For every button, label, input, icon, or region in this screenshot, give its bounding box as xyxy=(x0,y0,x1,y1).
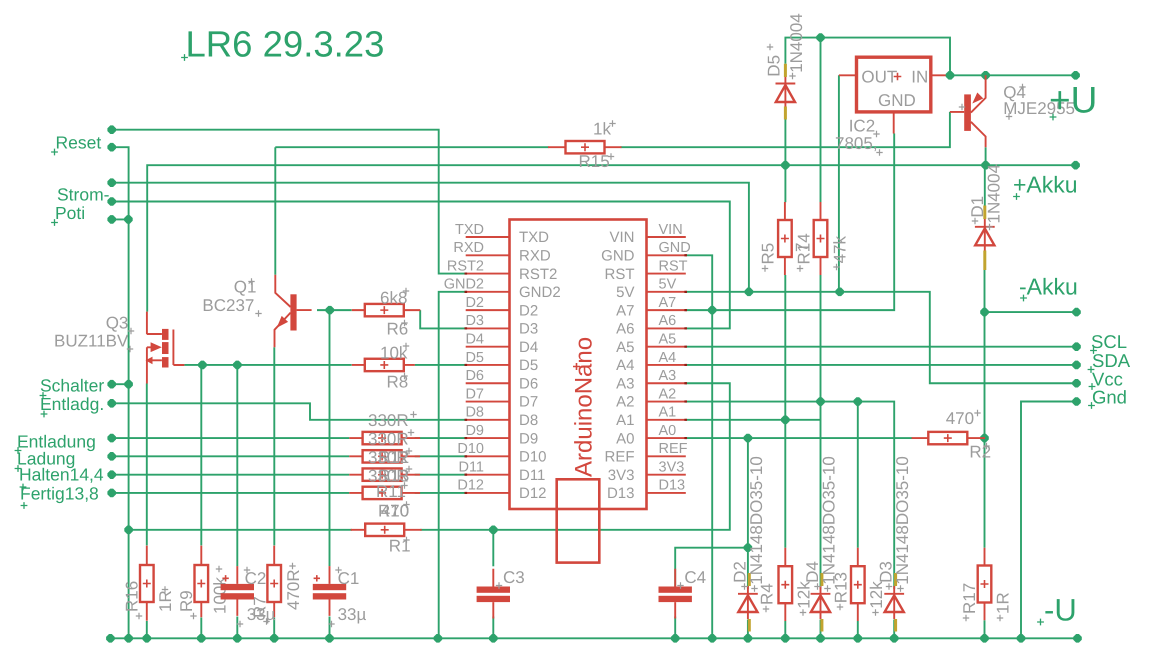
svg-text:C2: C2 xyxy=(245,569,267,588)
wire D5 top loop xyxy=(785,38,950,76)
IC2 GND pin xyxy=(893,112,895,134)
svg-text:A0: A0 xyxy=(659,423,677,439)
resistor R9 100k body xyxy=(195,565,209,602)
resistor R10 330R body xyxy=(363,487,402,499)
resistor R5 xyxy=(784,202,786,275)
svg-text:D3: D3 xyxy=(465,313,484,329)
svg-text:47k: 47k xyxy=(831,235,850,263)
wire Q1 collector column xyxy=(274,147,276,275)
ArduinoNano USB notch xyxy=(557,479,600,562)
C1 polarity mark xyxy=(314,575,320,581)
capacitor C1 33u xyxy=(313,584,346,590)
wire Q3 source to R16 xyxy=(146,384,148,546)
svg-text:-Akku: -Akku xyxy=(1019,274,1078,300)
svg-text:D2: D2 xyxy=(519,302,538,319)
svg-text:A1: A1 xyxy=(616,412,634,429)
transistor Q3 BUZ11BV body xyxy=(147,312,185,384)
svg-text:GND: GND xyxy=(601,247,635,264)
gray origin crosses xyxy=(127,44,1026,627)
resistor R7 470R xyxy=(273,546,275,618)
svg-text:R17: R17 xyxy=(960,583,979,614)
svg-text:OUT: OUT xyxy=(861,68,897,87)
resistor R4 12k xyxy=(784,548,786,621)
svg-text:12k: 12k xyxy=(867,581,886,609)
svg-text:A2: A2 xyxy=(616,394,634,411)
svg-text:D5: D5 xyxy=(519,357,538,374)
diode D3 1N4148 xyxy=(885,595,904,612)
svg-text:R4: R4 xyxy=(758,583,777,605)
wire Q1 emitter to R7 xyxy=(273,347,275,545)
svg-text:GND: GND xyxy=(878,91,916,110)
wire C1 column from Q1 base xyxy=(329,310,331,566)
svg-text:330R: 330R xyxy=(368,430,409,449)
svg-text:1N4004: 1N4004 xyxy=(985,164,1004,224)
wire D1 bottom to -Akku row xyxy=(985,270,1077,312)
svg-text:D9: D9 xyxy=(519,430,538,447)
svg-text:C3: C3 xyxy=(503,568,525,587)
wire R9 column from gate line xyxy=(200,365,202,545)
svg-text:Q1: Q1 xyxy=(234,278,257,297)
diode D4 1N4148 xyxy=(811,595,830,612)
resistor R14 47k xyxy=(820,202,822,275)
svg-text:1N4148DO35-10: 1N4148DO35-10 xyxy=(893,456,912,585)
svg-text:D5: D5 xyxy=(765,55,784,77)
resistor R13 12k body xyxy=(851,566,865,603)
C2 polarity mark xyxy=(222,575,228,581)
resistor R14 47k body xyxy=(814,220,828,257)
resistor R15 1k xyxy=(548,146,622,148)
svg-text:BUZ11BV: BUZ11BV xyxy=(54,332,129,351)
svg-text:D12: D12 xyxy=(457,478,484,494)
svg-text:5V: 5V xyxy=(616,284,634,301)
svg-text:Halten14,4: Halten14,4 xyxy=(19,464,104,484)
svg-text:D6: D6 xyxy=(465,368,484,384)
svg-text:R9: R9 xyxy=(177,590,196,612)
wire R15 left to Q1 collector xyxy=(275,146,548,148)
resistor R11 330R xyxy=(349,474,420,476)
wire bottom ground rail xyxy=(110,637,1077,639)
svg-text:D3: D3 xyxy=(519,321,538,338)
svg-text:R1: R1 xyxy=(389,537,411,556)
svg-text:5V: 5V xyxy=(659,277,677,293)
wire R1 row (Schalter column to A3) xyxy=(129,383,730,530)
svg-text:IC2: IC2 xyxy=(849,117,875,136)
resistor R1 470 xyxy=(351,529,422,531)
svg-text:1R: 1R xyxy=(994,592,1013,614)
wire A5 row to SCL xyxy=(686,346,1077,348)
resistor R16 1R body xyxy=(140,565,154,602)
wire A2 row to D3 diode xyxy=(686,402,894,589)
svg-text:R16: R16 xyxy=(123,581,142,612)
resistor R9 100k xyxy=(200,546,202,618)
svg-text:33µ: 33µ xyxy=(247,605,276,624)
svg-text:470R: 470R xyxy=(284,569,303,610)
svg-text:D7: D7 xyxy=(519,394,538,411)
resistor R13 12k xyxy=(857,548,859,621)
resistor R8 10k body xyxy=(365,359,404,371)
svg-text:7805,: 7805, xyxy=(835,134,878,153)
resistor R7 470R body xyxy=(267,565,281,602)
wire R15 right to Q4 base xyxy=(621,112,950,147)
wire Q4 collector to +Akku dot xyxy=(985,147,987,165)
svg-text:A7: A7 xyxy=(616,302,634,319)
svg-text:D2: D2 xyxy=(465,295,484,311)
svg-text:C4: C4 xyxy=(684,568,706,587)
svg-text:Schalter: Schalter xyxy=(40,376,104,396)
svg-text:330R: 330R xyxy=(368,411,409,430)
svg-text:C1: C1 xyxy=(338,569,360,588)
IC2 IN pin stub xyxy=(931,74,947,76)
wire +Akku horizontal net xyxy=(147,165,1075,311)
resistor R10 330R xyxy=(349,492,420,494)
transistor Q1 BC237 xyxy=(290,294,296,330)
resistor R2 470 xyxy=(912,437,985,439)
op-amp IC2 7805 box xyxy=(857,57,931,112)
svg-text:1k: 1k xyxy=(593,120,611,139)
svg-text:1N4148DO35-10: 1N4148DO35-10 xyxy=(820,456,839,585)
junction dots left labels xyxy=(107,125,132,497)
svg-text:BC237: BC237 xyxy=(202,296,254,315)
transistor Q4 MJE2955 xyxy=(964,94,971,130)
svg-text:D5: D5 xyxy=(465,350,484,366)
capacitor C2 33u xyxy=(221,584,254,590)
svg-text:RST2: RST2 xyxy=(519,266,557,283)
resistor R13 330R xyxy=(349,455,420,457)
svg-text:R11: R11 xyxy=(376,482,406,501)
svg-text:RXD: RXD xyxy=(519,247,551,264)
svg-text:A3: A3 xyxy=(616,375,634,392)
svg-text:R15: R15 xyxy=(579,152,610,171)
resistor R16 1R xyxy=(146,546,148,621)
svg-text:RST: RST xyxy=(659,258,688,274)
wire D5 bottom / R5 column xyxy=(784,119,786,202)
svg-text:D10: D10 xyxy=(457,441,484,457)
diode D2 1N4148 xyxy=(738,595,757,612)
wire A0 row to R2 xyxy=(686,437,913,439)
wire D2 column from A0 xyxy=(747,438,749,589)
svg-text:Fertig13,8: Fertig13,8 xyxy=(20,483,99,503)
svg-text:D4: D4 xyxy=(465,331,484,347)
svg-text:33µ: 33µ xyxy=(338,605,367,624)
wire R8 to D5 xyxy=(415,364,466,366)
junction dots middle xyxy=(124,288,1081,552)
svg-text:REF: REF xyxy=(659,441,688,457)
resistor R8 10k xyxy=(352,364,415,366)
wire C2 column from gate line xyxy=(236,365,238,566)
wire C3 column xyxy=(492,530,494,567)
diode D1 1N4004 xyxy=(975,228,994,245)
svg-text:VIN: VIN xyxy=(609,229,634,246)
wire Fertig13,8 to R10 xyxy=(112,492,466,494)
svg-text:LR6 29.3.23: LR6 29.3.23 xyxy=(186,24,385,65)
resistor R12 330R body xyxy=(363,432,402,444)
svg-text:470: 470 xyxy=(946,409,974,428)
junction dots top area xyxy=(781,33,1080,169)
wire Gnd label column xyxy=(1021,402,1077,639)
svg-text:REF: REF xyxy=(605,449,635,466)
svg-text:A2: A2 xyxy=(659,386,677,402)
svg-text:D13: D13 xyxy=(607,485,635,502)
wire Poti net (to A6) xyxy=(112,202,730,329)
svg-text:A4: A4 xyxy=(659,350,677,366)
svg-text:D7: D7 xyxy=(465,386,484,402)
wire Ladung to R13 xyxy=(112,455,466,457)
resistor R6 6k8 body xyxy=(365,304,404,316)
svg-text:A0: A0 xyxy=(616,430,634,447)
svg-text:A7: A7 xyxy=(659,295,677,311)
wire R6 to D3 xyxy=(420,310,466,328)
svg-text:3V3: 3V3 xyxy=(608,467,635,484)
wire Halten14,4 to R11 xyxy=(112,474,466,476)
IC2 OUT pin xyxy=(839,74,857,76)
svg-text:D4: D4 xyxy=(519,339,538,356)
capacitor C3 xyxy=(477,587,510,593)
svg-text:3V3: 3V3 xyxy=(659,459,685,475)
svg-text:D8: D8 xyxy=(519,412,538,429)
svg-text:R12: R12 xyxy=(378,448,409,467)
wire Q1 base to R6 left xyxy=(317,309,352,311)
svg-text:A5: A5 xyxy=(616,339,634,356)
resistor R6 6k8 xyxy=(352,309,421,311)
wire Entladg. net (to D8) xyxy=(112,403,466,420)
diode D5 1N4004 xyxy=(776,85,795,102)
wire R13 column from A2 xyxy=(857,402,859,548)
wire R14 bottom to D4 top xyxy=(820,275,822,589)
svg-text:Entladg.: Entladg. xyxy=(40,394,104,414)
svg-text:Gnd: Gnd xyxy=(1092,387,1127,408)
svg-text:D11: D11 xyxy=(458,459,484,475)
svg-text:D10: D10 xyxy=(519,449,547,466)
svg-text:D13: D13 xyxy=(659,478,686,494)
svg-text:Poti: Poti xyxy=(55,203,85,223)
svg-text:TXD: TXD xyxy=(455,222,484,238)
resistor R17 1R body xyxy=(978,566,992,603)
op-amp U1 ArduinoNano box xyxy=(510,220,647,510)
svg-text:GND: GND xyxy=(659,240,691,256)
svg-text:1N4148DO35-10: 1N4148DO35-10 xyxy=(747,456,766,585)
wire IC2 OUT column to 5V xyxy=(838,75,840,292)
wire A7 row to IC2 GND xyxy=(686,134,894,311)
svg-text:1N4004: 1N4004 xyxy=(787,13,806,73)
wire R5 bottom to R4 top xyxy=(784,275,786,548)
resistor R12 330R xyxy=(349,437,420,439)
wire C4 top to D2 column xyxy=(675,548,748,587)
wire Strom net (to 5V) xyxy=(112,183,749,292)
wire GND pin to rail column xyxy=(686,255,712,638)
svg-text:RST2: RST2 xyxy=(447,258,484,274)
IC2 OUT plus xyxy=(894,73,902,81)
svg-text:7: 7 xyxy=(793,243,812,252)
wire +U row xyxy=(947,74,1076,76)
resistor R4 12k body xyxy=(779,566,793,603)
svg-text:IN: IN xyxy=(911,68,928,87)
svg-text:D8: D8 xyxy=(465,405,484,421)
svg-text:Reset: Reset xyxy=(56,133,102,153)
svg-text:D11: D11 xyxy=(519,467,545,484)
wire Reset net (to RST2) xyxy=(112,130,466,274)
svg-text:Strom-: Strom- xyxy=(57,185,110,205)
resistor R11 330R body xyxy=(363,468,402,480)
svg-text:D12: D12 xyxy=(519,485,547,502)
svg-text:A6: A6 xyxy=(616,321,634,338)
svg-text:GND2: GND2 xyxy=(519,284,561,301)
wire Schalter/Poti left column net xyxy=(112,147,129,638)
wire GND2 to ground rail xyxy=(439,292,466,638)
wire A4 row to SDA xyxy=(686,364,1077,366)
resistor R5 body xyxy=(778,220,792,257)
svg-text:R5: R5 xyxy=(759,243,778,265)
svg-text:A6: A6 xyxy=(659,313,677,329)
svg-text:1R: 1R xyxy=(156,590,175,612)
resistor R17 1R xyxy=(984,548,986,621)
wire 5V row to Vcc xyxy=(686,292,1077,383)
svg-text:A5: A5 xyxy=(659,331,677,347)
svg-text:+U: +U xyxy=(1049,80,1097,121)
resistor R2 470 body xyxy=(928,432,967,444)
wire Entladung to R12 xyxy=(112,437,466,439)
svg-text:ArduinoNano: ArduinoNano xyxy=(571,337,598,477)
pin connection markers xyxy=(465,255,688,493)
svg-text:R2: R2 xyxy=(969,442,991,461)
junction dots ground rail xyxy=(106,634,1082,643)
svg-text:A3: A3 xyxy=(659,368,677,384)
svg-text:D9: D9 xyxy=(465,423,484,439)
svg-text:RXD: RXD xyxy=(453,240,484,256)
capacitor C4 xyxy=(659,587,692,593)
resistor R1 470 body xyxy=(365,524,404,536)
svg-text:VIN: VIN xyxy=(659,222,683,238)
svg-text:RST: RST xyxy=(605,266,635,283)
ArduinoNano origin cross xyxy=(573,363,580,370)
wire ground rail risers xyxy=(147,617,985,639)
svg-text:+Akku: +Akku xyxy=(1013,172,1078,198)
wire +Akku dot to D1 top xyxy=(984,165,986,206)
svg-text:TXD: TXD xyxy=(519,229,549,246)
wire R14/D4 column xyxy=(820,38,822,203)
svg-text:-U: -U xyxy=(1044,593,1077,628)
svg-text:GND2: GND2 xyxy=(444,277,484,293)
svg-text:A1: A1 xyxy=(659,405,677,421)
wire A1 row xyxy=(686,419,821,421)
resistor R15 1k body xyxy=(566,141,605,153)
ArduinoNano pin stubs xyxy=(466,237,686,493)
svg-text:A4: A4 xyxy=(616,357,634,374)
wire Q3 gate to R8 left xyxy=(184,364,351,366)
svg-text:Q3: Q3 xyxy=(106,313,129,332)
wire D1 column to R17 xyxy=(984,312,986,548)
resistor R13 330R body xyxy=(363,450,402,462)
svg-text:D6: D6 xyxy=(519,375,538,392)
